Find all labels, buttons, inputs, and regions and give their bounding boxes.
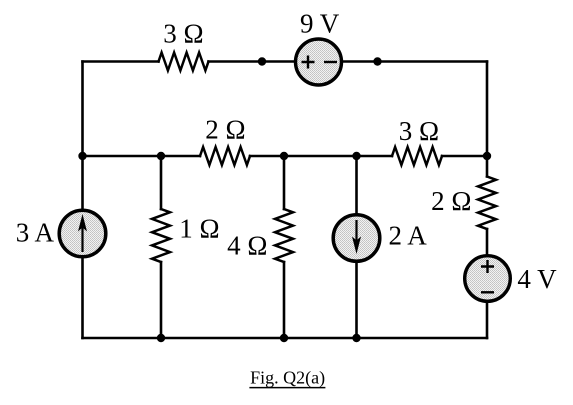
node dot top wire right of 9V bbox=[373, 57, 381, 65]
wire middle horizontal segment B (2ohm to 3ohm) bbox=[250, 155, 392, 158]
svg-text:3 Ω: 3 Ω bbox=[163, 19, 203, 49]
wire middle horizontal segment A (left node to 2ohm) bbox=[83, 155, 201, 158]
plus sign of 4V bbox=[481, 260, 494, 273]
svg-text:9 V: 9 V bbox=[300, 9, 340, 39]
minus sign of 9V bbox=[324, 61, 337, 63]
node dot middle wire at 2A branch bbox=[352, 152, 360, 160]
wire top middle (3ohm to 9V source) bbox=[209, 60, 296, 63]
resistor R4 4ohm vertical zigzag bbox=[275, 209, 293, 262]
node dot bottom wire at 4ohm branch bbox=[280, 334, 288, 342]
wire bottom horizontal bbox=[83, 337, 488, 340]
wire middle horizontal segment C (3ohm to right node) bbox=[442, 155, 487, 158]
svg-text:1 Ω: 1 Ω bbox=[179, 214, 219, 244]
resistor R1 1ohm vertical zigzag bbox=[152, 209, 170, 262]
resistor R-top 3ohm zigzag bbox=[159, 53, 209, 71]
node dot middle wire at 1ohm branch bbox=[157, 152, 165, 160]
resistor R-mid 3ohm zigzag bbox=[392, 147, 442, 165]
plus sign of 9V bbox=[302, 56, 315, 69]
wire top right (9V source to right corner) bbox=[343, 60, 487, 63]
wire left vertical lower (3A source to bottom-left corner) bbox=[81, 258, 84, 339]
node dot middle wire far right bbox=[483, 152, 491, 160]
minus sign of 4V bbox=[481, 291, 494, 293]
wire branch 1ohm upper stub bbox=[160, 156, 163, 209]
wire branch 4ohm lower stub bbox=[283, 262, 286, 338]
wire right vertical (2ohm to 4V source) bbox=[486, 229, 489, 255]
arrow of 3A pointing up bbox=[81, 224, 83, 252]
wire right vertical lower (4V source to bottom-right corner) bbox=[486, 303, 489, 339]
caption underline bbox=[249, 387, 325, 389]
current source I2 2A circle bbox=[333, 215, 380, 262]
svg-text:2 A: 2 A bbox=[389, 220, 428, 250]
svg-text:3 A: 3 A bbox=[16, 217, 55, 247]
voltage source V2 4V circle bbox=[465, 256, 511, 302]
current source I1 3A circle bbox=[59, 210, 106, 257]
arrow of 2A pointing down bbox=[355, 220, 357, 248]
wire right vertical upper (top-right corner to middle node) bbox=[486, 62, 489, 177]
wire branch 2A upper stub bbox=[355, 156, 358, 216]
wire left vertical upper (top-left corner down to 3A source) bbox=[81, 62, 84, 210]
wire branch 2A lower stub bbox=[355, 261, 358, 339]
svg-text:4 Ω: 4 Ω bbox=[227, 231, 267, 261]
wire branch 1ohm lower stub bbox=[160, 262, 163, 338]
svg-text:4 V: 4 V bbox=[517, 264, 557, 294]
node dot top wire left of 9V bbox=[258, 57, 266, 65]
resistor R-mid 2ohm zigzag bbox=[200, 147, 250, 165]
node dot bottom wire at 2A branch bbox=[352, 334, 360, 342]
wire branch 4ohm upper stub bbox=[283, 156, 286, 209]
voltage source V1 9V circle bbox=[296, 39, 342, 85]
svg-text:Fig. Q2(a): Fig. Q2(a) bbox=[250, 368, 325, 389]
wire top-left horizontal (left corner to 3ohm resistor) bbox=[83, 60, 159, 63]
node dot middle wire at 4ohm branch bbox=[280, 152, 288, 160]
svg-text:2 Ω: 2 Ω bbox=[431, 186, 471, 216]
node dot bottom wire at 1ohm branch bbox=[157, 334, 165, 342]
node dot middle wire far left bbox=[78, 152, 86, 160]
resistor R-right 2ohm vertical zigzag bbox=[478, 177, 496, 230]
svg-text:3 Ω: 3 Ω bbox=[399, 116, 439, 146]
svg-text:2 Ω: 2 Ω bbox=[205, 115, 245, 145]
